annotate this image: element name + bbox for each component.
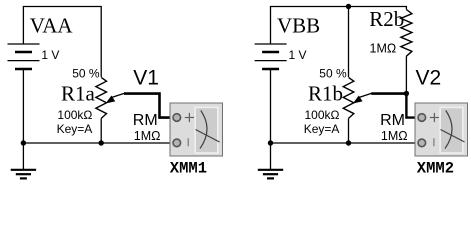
svg-text:R2b: R2b <box>369 7 404 31</box>
svg-text:1MΩ: 1MΩ <box>381 129 408 143</box>
svg-text:1 V: 1 V <box>289 48 307 62</box>
svg-text:XMM1: XMM1 <box>170 159 207 177</box>
svg-text:RM: RM <box>380 112 405 129</box>
svg-text:Key=A: Key=A <box>57 122 93 136</box>
svg-text:V1: V1 <box>133 67 159 90</box>
svg-text:V2: V2 <box>416 66 442 89</box>
svg-text:50 %: 50 % <box>319 67 347 81</box>
svg-text:VAA: VAA <box>30 14 74 38</box>
svg-text:Key=A: Key=A <box>304 122 340 136</box>
svg-text:R1a: R1a <box>61 81 96 105</box>
svg-text:100kΩ: 100kΩ <box>305 108 340 122</box>
svg-text:50 %: 50 % <box>72 67 100 81</box>
svg-text:1 V: 1 V <box>41 48 59 62</box>
svg-text:XMM2: XMM2 <box>417 159 454 177</box>
svg-text:1MΩ: 1MΩ <box>134 129 161 143</box>
svg-text:VBB: VBB <box>277 14 320 38</box>
svg-text:1MΩ: 1MΩ <box>370 42 397 56</box>
svg-text:RM: RM <box>133 112 158 129</box>
svg-text:100kΩ: 100kΩ <box>57 108 92 122</box>
svg-text:R1b: R1b <box>308 81 343 105</box>
